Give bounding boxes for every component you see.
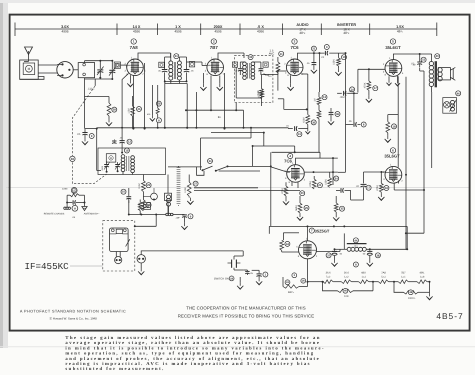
svg-text:25: 25 xyxy=(305,207,309,210)
handwritten note xyxy=(88,87,95,91)
tube V5 35L6GT xyxy=(385,60,402,77)
pilot lamp 46 xyxy=(443,91,461,113)
tube V1 7A8 xyxy=(127,59,144,76)
resistor R-IF 4.7K xyxy=(257,89,263,103)
remote chassis gnd xyxy=(64,203,71,210)
wire V1 plate xyxy=(138,53,171,60)
wire V6 grid xyxy=(364,171,386,183)
speaker frame xyxy=(110,228,129,252)
svg-text:18: 18 xyxy=(385,187,389,190)
resistor 25 xyxy=(138,175,151,192)
wire staircase b xyxy=(252,145,254,166)
photofact line xyxy=(20,310,126,314)
svg-text:35: 35 xyxy=(340,208,344,211)
wire osc to speaker net xyxy=(128,200,143,215)
svg-text:1△1: 1△1 xyxy=(361,276,366,279)
svg-text:28: 28 xyxy=(113,109,117,112)
wire front-end drop xyxy=(85,79,96,129)
cap 36 + ground xyxy=(328,108,340,125)
model number xyxy=(436,311,463,321)
svg-text:48∿: 48∿ xyxy=(299,31,306,35)
osc tickler coil xyxy=(177,166,181,206)
T1 bottom drop xyxy=(164,80,188,129)
svg-text:7B7: 7B7 xyxy=(210,45,219,50)
tube V6 label xyxy=(384,148,400,159)
resistor 21b 470K xyxy=(309,176,322,189)
wire T2 bottom drop xyxy=(235,103,237,111)
svg-text:1△1: 1△1 xyxy=(401,276,406,279)
svg-text:48∿: 48∿ xyxy=(397,30,404,34)
padder box xyxy=(165,175,181,220)
svg-text:44: 44 xyxy=(354,239,358,242)
tube V4 label xyxy=(284,153,293,163)
wire V3 grid xyxy=(268,70,287,75)
footnote paragraph xyxy=(65,335,325,371)
tube V7 label xyxy=(309,228,330,233)
svg-text:13: 13 xyxy=(323,96,327,99)
osc coil label 19 xyxy=(124,148,129,153)
svg-text:25: 25 xyxy=(147,184,151,187)
tube V6 pins xyxy=(383,163,404,182)
wire gang to RF box xyxy=(73,69,78,71)
wire V5 plate xyxy=(393,53,431,60)
wire V4 down xyxy=(292,182,298,188)
T1 box A4 xyxy=(159,62,164,67)
tube V2 pins xyxy=(205,56,225,75)
svg-text:560K: 560K xyxy=(295,205,298,211)
wire net to speaker box xyxy=(134,214,157,228)
T1 primary cap xyxy=(162,57,171,81)
svg-text:7△2: 7△2 xyxy=(326,276,331,279)
antenna xyxy=(24,47,33,62)
T2 box B left xyxy=(232,62,237,67)
resistor 20b xyxy=(281,182,305,205)
svg-text:6.8M: 6.8M xyxy=(303,117,306,122)
IF transformer T2 xyxy=(243,62,255,80)
wire osc plate feed xyxy=(201,128,252,170)
cooperation line xyxy=(178,305,315,318)
ruler labels xyxy=(61,23,404,35)
tuning gang xyxy=(57,62,73,78)
remote text xyxy=(44,213,100,219)
svg-text:470K: 470K xyxy=(376,185,379,191)
svg-text:7A8: 7A8 xyxy=(381,271,386,274)
svg-text:26: 26 xyxy=(137,108,141,111)
svg-text:680∿: 680∿ xyxy=(288,291,294,294)
label T1 caps xyxy=(158,70,194,73)
resistor 34b 100K xyxy=(325,172,339,187)
stage-gain ruler xyxy=(15,23,437,37)
gang label 16 xyxy=(70,156,75,161)
tube V5 label xyxy=(385,39,401,50)
coupling cap 9 xyxy=(321,45,329,60)
osc trimmer a xyxy=(104,162,110,173)
wire bottom front-end xyxy=(85,77,114,80)
T1 secondary cap xyxy=(184,57,190,81)
osc coil windings xyxy=(121,155,134,173)
cap 3b xyxy=(336,188,364,200)
resistor 10 100K xyxy=(333,53,347,75)
AVC resistor 11 xyxy=(276,51,284,90)
svg-text:.002: .002 xyxy=(348,90,353,93)
tube V2 7B7 xyxy=(207,59,224,76)
svg-text:M: M xyxy=(28,67,31,71)
svg-text:48V.: 48V. xyxy=(361,271,366,274)
alignment box A5 xyxy=(114,62,120,68)
tube V2 label xyxy=(210,39,219,50)
wire V4 plate xyxy=(296,157,338,165)
label 2 43 xyxy=(283,259,309,294)
tube V3 pins xyxy=(284,56,304,77)
alignment box M2 xyxy=(144,203,151,210)
label res17 xyxy=(348,90,353,93)
wire V1 cath drop xyxy=(132,76,134,130)
wire V7 left xyxy=(269,226,299,240)
AVC label xyxy=(269,49,275,56)
RF input box xyxy=(78,63,94,78)
wire above V7 xyxy=(269,225,407,227)
trimmer C-B xyxy=(109,61,116,79)
svg-text:THE COOPERATION OF THE MANUFAC: THE COOPERATION OF THE MANUFACTURER OF T… xyxy=(186,305,306,310)
AVC resistor 4.7M xyxy=(258,91,264,99)
tube V1 label xyxy=(130,39,139,50)
svg-text:3.0X: 3.0X xyxy=(61,25,69,29)
svg-text:21: 21 xyxy=(318,184,322,187)
svg-text:36.6: 36.6 xyxy=(326,271,332,274)
svg-text:substituted for measurement.: substituted for measurement. xyxy=(65,366,164,371)
wire choke right xyxy=(366,226,408,250)
svg-text:1.5X: 1.5X xyxy=(396,25,404,29)
svg-text:31: 31 xyxy=(175,55,179,58)
label cap21 xyxy=(306,62,310,65)
wire B+ vertical a xyxy=(397,76,399,166)
label cap 1b xyxy=(250,272,254,275)
svg-text:19: 19 xyxy=(125,149,129,152)
svg-text:.002: .002 xyxy=(339,96,345,99)
svg-text:3: 3 xyxy=(294,40,296,44)
svg-text:1000∿: 1000∿ xyxy=(408,297,416,300)
label 220M xyxy=(62,188,68,191)
svg-text:7A8: 7A8 xyxy=(130,45,139,50)
tube V7 pins xyxy=(296,238,318,258)
svg-text:35L6GT: 35L6GT xyxy=(385,45,401,50)
svg-text:38: 38 xyxy=(376,254,380,257)
ground V2 a xyxy=(200,73,206,90)
wire V2 screen drop xyxy=(224,73,226,130)
svg-text:36: 36 xyxy=(336,113,340,116)
resistor 25b xyxy=(295,196,309,220)
T2 box B right xyxy=(263,62,268,67)
tube V1 pins xyxy=(125,56,147,75)
resistor 44b 47ohm xyxy=(280,234,299,252)
small coil speaker net xyxy=(129,213,185,216)
svg-text:100K: 100K xyxy=(184,187,187,193)
svg-text:1M: 1M xyxy=(314,98,317,101)
T2 shield (dashed) xyxy=(234,55,273,102)
output jack xyxy=(137,255,145,275)
tube V7 35Z5GT xyxy=(299,241,317,259)
svg-text:21: 21 xyxy=(312,48,316,51)
tube V3 label xyxy=(290,39,299,50)
svg-text:48V.: 48V. xyxy=(420,271,425,274)
svg-text:10: 10 xyxy=(122,191,126,194)
T1 label 31 xyxy=(174,54,179,59)
AC plug xyxy=(228,251,244,270)
wire V2 plate xyxy=(218,53,244,60)
electrolytic 38 xyxy=(363,248,381,266)
label cap15 xyxy=(412,63,416,66)
svg-text:14∿: 14∿ xyxy=(354,244,358,247)
remote circle M xyxy=(72,205,78,211)
resistor 17 470K xyxy=(364,69,378,95)
svg-text:35L6GT: 35L6GT xyxy=(384,154,400,159)
svg-text:470K: 470K xyxy=(281,188,284,194)
T1 primary cap ground xyxy=(164,80,188,82)
chain sub-loop 2 xyxy=(393,281,431,300)
wire T2 out xyxy=(260,103,262,107)
oscillator coil box xyxy=(98,148,166,175)
ground V3 xyxy=(287,75,293,90)
electrolytic 37 xyxy=(326,248,343,266)
cap 41 .01 xyxy=(288,126,308,137)
resistor 24 xyxy=(138,192,151,211)
chain sub-loop 1 xyxy=(322,281,375,299)
T2 primary cap xyxy=(238,62,245,75)
svg-text:5: 5 xyxy=(392,40,394,44)
output transformer 40 xyxy=(429,54,442,88)
svg-text:1△2: 1△2 xyxy=(344,276,349,279)
ground V5 a xyxy=(386,76,391,85)
wire V7 chain xyxy=(308,281,317,283)
tube V3 7C6 xyxy=(286,59,303,76)
osc tickler winding 2 xyxy=(167,195,171,215)
svg-text:12: 12 xyxy=(128,141,132,144)
svg-text:4.7M: 4.7M xyxy=(258,92,261,98)
svg-text:20: 20 xyxy=(301,192,305,195)
svg-text:1△8: 1△8 xyxy=(420,276,425,279)
cap line cord xyxy=(243,270,249,275)
svg-text:7B7: 7B7 xyxy=(401,271,406,274)
IF label xyxy=(25,261,103,272)
svg-text:4596: 4596 xyxy=(133,30,140,34)
wire staircase c xyxy=(272,151,320,158)
ground V1 cathode xyxy=(127,75,133,87)
svg-text:36.6: 36.6 xyxy=(344,271,350,274)
svg-text:IF=455KC: IF=455KC xyxy=(25,261,70,272)
wire V2 cathode feed xyxy=(185,76,244,129)
svg-text:100K: 100K xyxy=(325,179,328,185)
ground resistor 17 xyxy=(366,96,372,103)
svg-text:Ⓒ Howard W. Sams & Co., Inc. 1: Ⓒ Howard W. Sams & Co., Inc. 1948 xyxy=(49,316,97,320)
wire x345 vertical xyxy=(338,52,355,172)
resistor 18c 150 xyxy=(385,115,399,143)
remote earth gnd xyxy=(82,203,87,211)
wire V4 grid line xyxy=(271,167,338,173)
svg-text:1 X: 1 X xyxy=(175,25,181,29)
ground chain xyxy=(426,293,432,300)
svg-text:16: 16 xyxy=(71,157,75,161)
svg-text:37: 37 xyxy=(327,254,331,257)
resistor 35b xyxy=(333,196,344,221)
svg-text:4996: 4996 xyxy=(61,30,68,34)
svg-text:A PHOTOFACT STANDARD NOTATION: A PHOTOFACT STANDARD NOTATION SCHEMATIC xyxy=(20,310,126,314)
volume twin line xyxy=(194,188,300,191)
svg-text:7C6: 7C6 xyxy=(290,45,299,50)
svg-text:REMOTE CHASSIS: REMOTE CHASSIS xyxy=(44,213,65,216)
wire B+ vertical c xyxy=(423,71,425,233)
svg-text:M: M xyxy=(146,205,148,208)
B plus label xyxy=(218,115,222,119)
loop antenna L1 xyxy=(20,60,39,79)
cap 9b + ground xyxy=(181,214,193,230)
svg-text:10K: 10K xyxy=(344,295,349,298)
wire staircase d xyxy=(270,152,272,226)
cap 15 .02 xyxy=(411,54,426,67)
svg-text:17: 17 xyxy=(374,87,378,90)
switch out lines xyxy=(219,165,272,171)
ground V2 b xyxy=(217,76,223,91)
T2 bottom wiring xyxy=(236,67,261,98)
T2 diode wire xyxy=(261,73,268,76)
speaker plug xyxy=(115,252,122,264)
svg-text:44: 44 xyxy=(286,243,290,246)
remote resistor 5 xyxy=(67,188,84,203)
cap 1 + ground xyxy=(252,270,268,284)
svg-text:2.2M: 2.2M xyxy=(138,183,141,188)
label T2 caps xyxy=(234,70,272,79)
wire V1 grid xyxy=(121,65,127,67)
filament choke 44 xyxy=(316,233,366,251)
osc padder caps 12 xyxy=(112,129,132,154)
resistor speaker net xyxy=(138,200,142,215)
svg-text:.5 X: .5 X xyxy=(257,25,264,29)
V1 osc cluster xyxy=(156,85,161,129)
ground V5 b xyxy=(395,76,400,86)
wire V3 out drop xyxy=(318,52,320,92)
T1 box A6 xyxy=(189,62,194,67)
wire loop to gang xyxy=(20,65,58,79)
svg-text:5△1: 5△1 xyxy=(381,276,386,279)
svg-text:17: 17 xyxy=(367,187,371,190)
bottom bus right xyxy=(365,249,367,251)
resistor 26 1.5MEG xyxy=(128,96,142,129)
cap 14 .002 xyxy=(337,87,358,99)
svg-text:J4bo: J4bo xyxy=(88,87,95,91)
svg-text:.05: .05 xyxy=(77,133,81,136)
bottom bus left xyxy=(141,251,243,255)
svg-text:470K: 470K xyxy=(364,82,367,88)
wire field vertical xyxy=(431,92,433,168)
cap 10 xyxy=(121,188,131,203)
resistor pair x319 xyxy=(314,92,328,152)
wire staircase a xyxy=(211,132,295,153)
switch label xyxy=(214,276,234,281)
T2 secondary cap xyxy=(253,62,263,73)
svg-text:100K: 100K xyxy=(333,59,336,65)
svg-text:35Z5GT: 35Z5GT xyxy=(315,228,330,233)
cap 17b xyxy=(356,184,371,200)
wire under staircase xyxy=(405,232,424,234)
label osc caps xyxy=(101,137,123,171)
svg-text:SWITCH ON: SWITCH ON xyxy=(214,277,229,280)
filament voltage labels xyxy=(326,271,425,278)
resistor 28 xyxy=(85,97,117,126)
wire T1 to V2 grid xyxy=(187,62,208,66)
svg-text:48∿: 48∿ xyxy=(343,31,350,35)
sams line xyxy=(49,316,97,320)
label choke xyxy=(354,244,358,247)
svg-text:40: 40 xyxy=(436,55,440,58)
svg-text:15: 15 xyxy=(422,59,426,62)
svg-text:4596: 4596 xyxy=(214,30,221,34)
ground resistor 27 xyxy=(187,198,193,205)
svg-text:4996: 4996 xyxy=(257,30,264,34)
ground AC xyxy=(237,277,243,289)
svg-text:AVC: AVC xyxy=(269,52,275,56)
svg-text:41: 41 xyxy=(298,133,302,136)
svg-text:18: 18 xyxy=(392,125,396,128)
filament dropping resistors xyxy=(316,280,429,284)
tube V4 7C6 xyxy=(287,165,305,183)
svg-text:RECEIVER MAKES IT POSSIBLE TO: RECEIVER MAKES IT POSSIBLE TO BRING YOU … xyxy=(178,314,315,319)
wire V6 bottom drop xyxy=(394,181,425,192)
svg-text:.1MF: .1MF xyxy=(175,217,181,220)
wire V6 top xyxy=(397,166,399,167)
osc trimmer b xyxy=(115,162,121,172)
resistor 27 10K xyxy=(184,175,198,198)
speaker dashed box xyxy=(103,221,135,271)
speaker xyxy=(438,67,455,80)
remote cap xyxy=(66,200,85,204)
cap .05 x356 xyxy=(346,120,367,127)
svg-text:34: 34 xyxy=(208,160,212,163)
label 8 circ xyxy=(353,262,358,267)
svg-text:1: 1 xyxy=(133,40,135,44)
osc alignment box xyxy=(106,154,116,162)
cap 9 .05 + ground xyxy=(77,128,98,145)
svg-text:ANTENNA B+−: ANTENNA B+− xyxy=(84,213,100,216)
label cap41 xyxy=(286,125,290,128)
svg-text:30: 30 xyxy=(312,121,316,124)
resistor 18b 470K xyxy=(376,172,389,201)
svg-text:14 X: 14 X xyxy=(133,25,141,29)
svg-text:1.5M: 1.5M xyxy=(128,108,131,113)
osc triode circle xyxy=(143,188,157,201)
gang dashed link xyxy=(72,86,106,184)
wire top bus front-end xyxy=(85,60,114,63)
wire V3 plate xyxy=(298,52,346,109)
plate cap 21 xyxy=(311,46,317,73)
svg-text:34: 34 xyxy=(335,177,339,180)
svg-text:200X: 200X xyxy=(214,25,223,29)
wire v4 plate right xyxy=(332,158,334,185)
speaker switch lever xyxy=(126,239,130,246)
tube V5 pins xyxy=(383,57,404,77)
svg-text:11: 11 xyxy=(280,53,283,56)
wire V7 top xyxy=(307,226,309,240)
wire xfmr bottom xyxy=(420,68,432,93)
wire V5 grid xyxy=(358,68,385,92)
svg-text:6: 6 xyxy=(392,148,394,152)
wire osc drop xyxy=(97,129,101,171)
svg-text:470K: 470K xyxy=(309,181,312,187)
svg-text:4B5-7: 4B5-7 xyxy=(436,311,463,321)
svg-text:46: 46 xyxy=(457,92,461,95)
trimmer C-A xyxy=(97,61,104,77)
svg-text:B+: B+ xyxy=(218,115,222,119)
V1 cathode cluster xyxy=(147,85,161,121)
osc bottom wires xyxy=(123,172,133,175)
